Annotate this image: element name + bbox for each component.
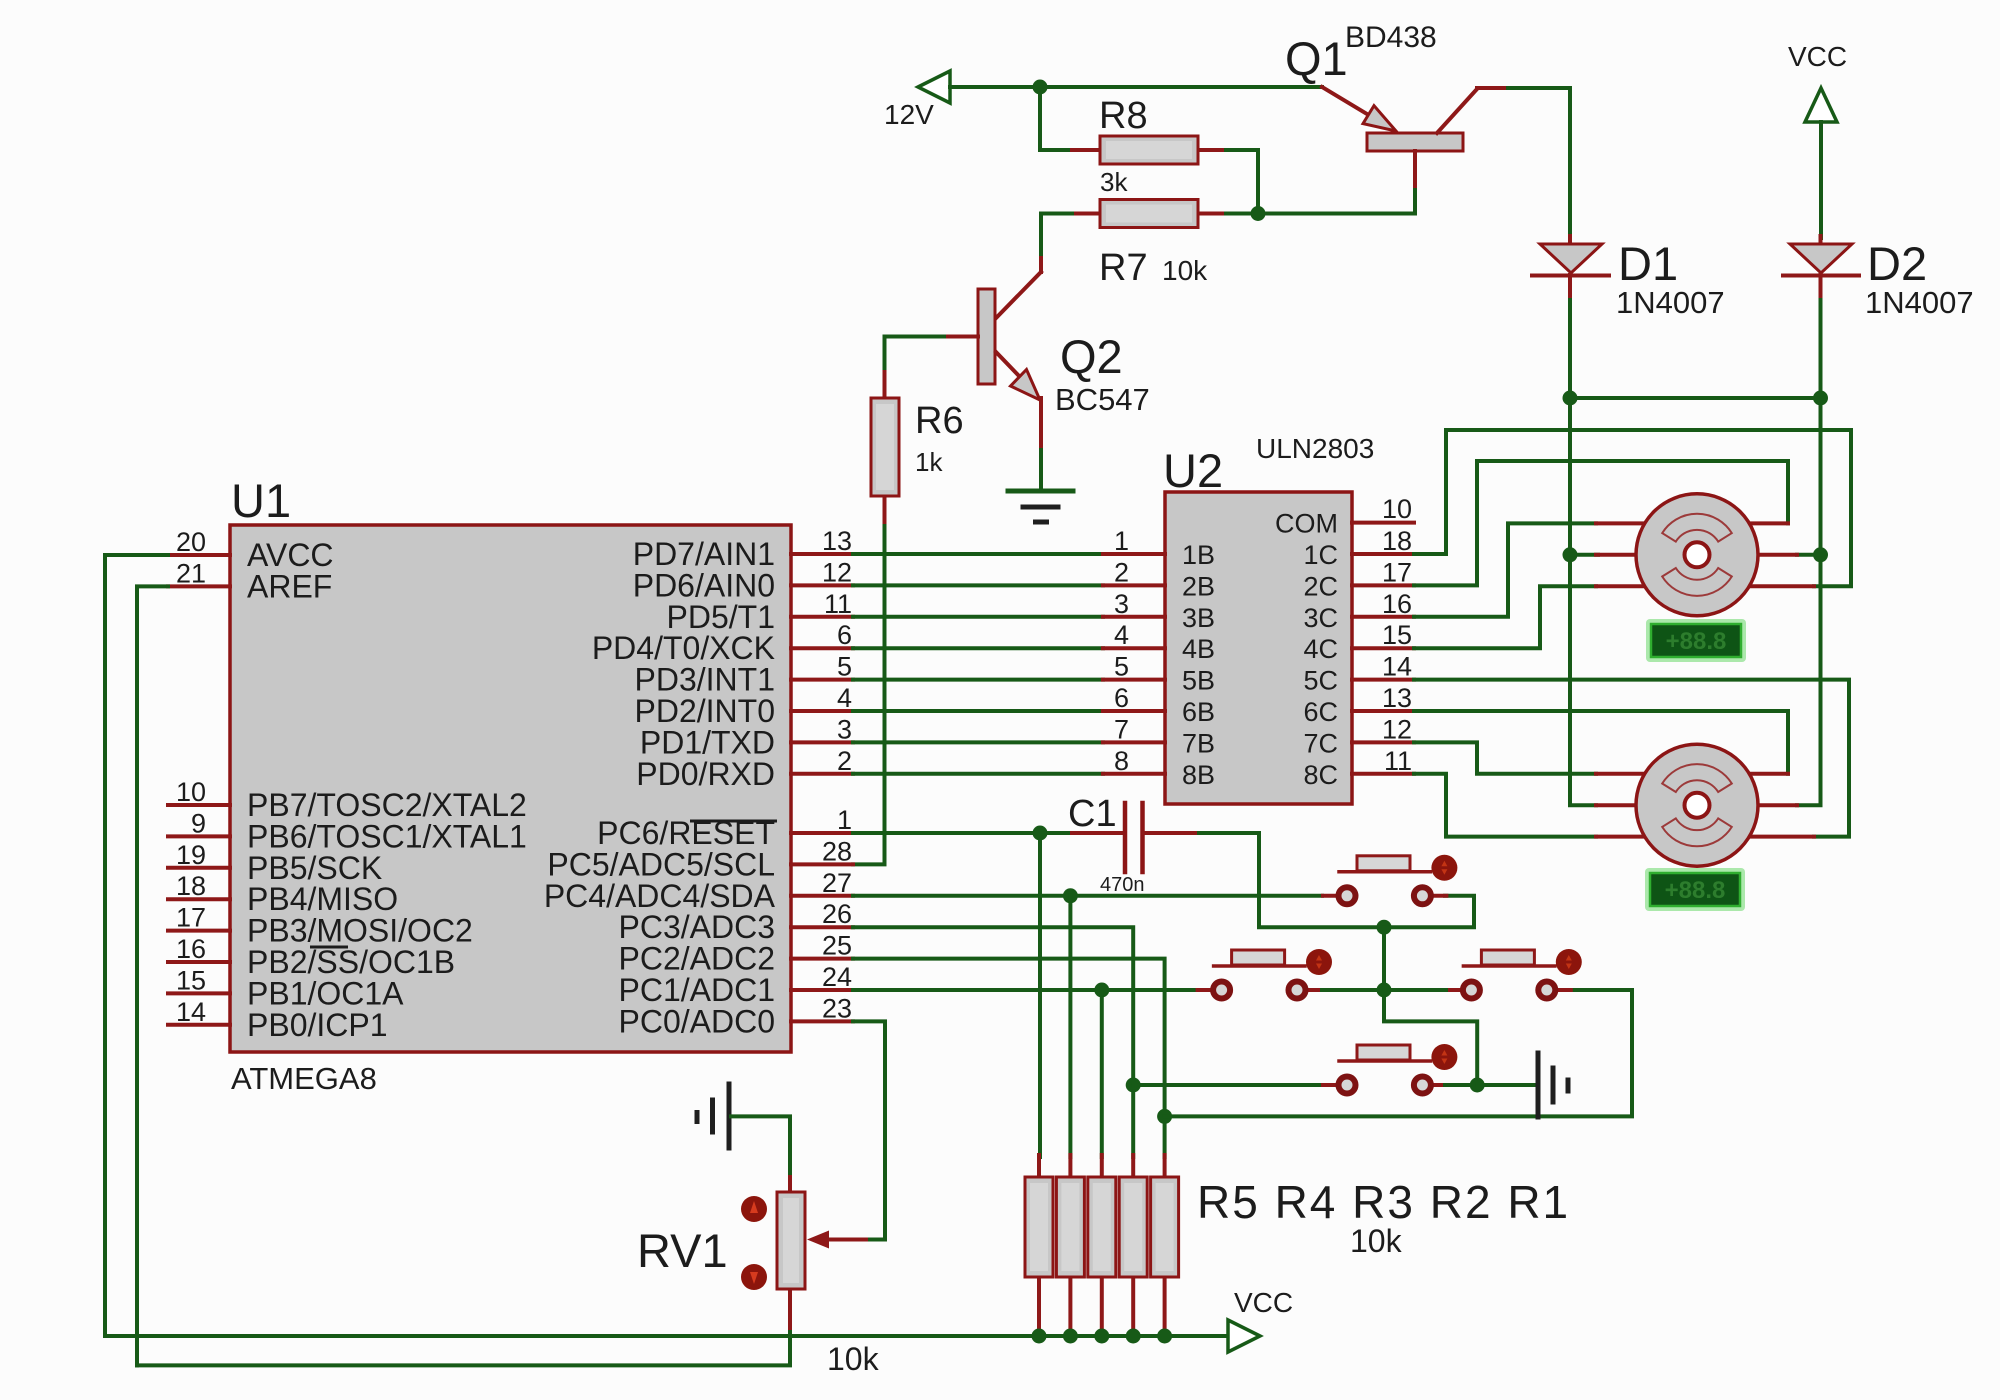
svg-text:1N4007: 1N4007 — [1616, 285, 1725, 320]
svg-text:19: 19 — [176, 840, 206, 870]
IC U2 ULN2803 — [1103, 433, 1414, 804]
wire net PD1/TXD — [853, 740, 1103, 744]
wire net PD3/INT1 — [853, 678, 1103, 682]
svg-text:12: 12 — [1382, 714, 1412, 744]
svg-text:12V: 12V — [884, 99, 934, 130]
wire — [1797, 398, 1821, 805]
junction — [1033, 826, 1048, 841]
wire — [1819, 122, 1823, 238]
pin 27 PC4/ADC4/SDA — [791, 894, 853, 898]
pin 11 8C — [1352, 772, 1414, 776]
wire net 4C — [1414, 586, 1596, 648]
pin 15 4C — [1352, 646, 1414, 650]
svg-text:U1: U1 — [231, 474, 291, 527]
svg-text:18: 18 — [176, 871, 206, 901]
wire — [853, 526, 885, 864]
pin 6 PD4/T0/XCK — [791, 646, 853, 650]
wire — [1395, 190, 1415, 214]
svg-text:4: 4 — [837, 683, 852, 713]
svg-text:4C: 4C — [1303, 634, 1338, 664]
junction — [1563, 547, 1578, 562]
pin 17 2C — [1352, 583, 1414, 587]
pin 13 PD7/AIN1 — [791, 552, 853, 556]
svg-text:8B: 8B — [1182, 760, 1215, 790]
svg-text:ULN2803: ULN2803 — [1256, 433, 1374, 464]
wire net PC2 — [853, 959, 1165, 1157]
svg-text:21: 21 — [176, 558, 206, 588]
pin 16 PB2/SS/OC1B — [168, 960, 230, 964]
svg-text:C1: C1 — [1068, 793, 1117, 835]
svg-text:11: 11 — [1384, 746, 1412, 776]
svg-text:13: 13 — [822, 526, 852, 556]
wire net PC3 to button — [1133, 1083, 1322, 1087]
svg-text:R7: R7 — [1099, 247, 1148, 289]
ground — [697, 1084, 729, 1148]
pin 4 PD2/INT0 — [791, 709, 853, 713]
junction — [1063, 1329, 1078, 1344]
button SW1 — [1323, 855, 1457, 905]
svg-text:5: 5 — [1114, 652, 1129, 682]
pin 19 PB5/SCK — [168, 866, 230, 870]
svg-text:6B: 6B — [1182, 697, 1215, 727]
svg-text:28: 28 — [822, 836, 852, 866]
wire net PD5/T1 — [853, 615, 1103, 619]
pin 28 PC5/ADC5/SCL — [791, 862, 853, 866]
pin 8 8B — [1103, 772, 1165, 776]
pin 12 PD6/AIN0 — [791, 583, 853, 587]
power VCC — [1788, 41, 1847, 122]
svg-text:8: 8 — [1114, 746, 1129, 776]
wire button row — [1322, 988, 1446, 992]
svg-text:17: 17 — [1382, 557, 1412, 587]
wire — [1382, 927, 1386, 990]
svg-text:12: 12 — [822, 557, 852, 587]
svg-text:20: 20 — [176, 527, 206, 557]
wire net PD7/AIN1 — [853, 552, 1103, 556]
wire net PC0 — [853, 1021, 885, 1239]
transistor Q1 BD438 — [1285, 21, 1508, 192]
resistor R6 — [871, 372, 964, 528]
pin 14 5C — [1352, 678, 1414, 682]
svg-text:3C: 3C — [1303, 603, 1338, 633]
svg-text:PC0/ADC0: PC0/ADC0 — [619, 1003, 776, 1039]
svg-text:14: 14 — [176, 997, 206, 1027]
svg-text:U2: U2 — [1163, 444, 1223, 497]
pin 16 3C — [1352, 615, 1414, 619]
svg-text:+88.8: +88.8 — [1666, 628, 1727, 655]
motor M2 — [1596, 744, 1814, 866]
motor M1 — [1596, 494, 1814, 616]
svg-text:3: 3 — [1114, 589, 1129, 619]
resistor R1 10k — [1151, 1155, 1179, 1332]
wire net 3C — [1414, 523, 1596, 616]
pin 20 AVCC — [168, 553, 230, 557]
pin 17 PB3/MOSI/OC2 — [168, 929, 230, 933]
svg-text:24: 24 — [822, 962, 852, 992]
pin 10 COM — [1352, 521, 1414, 525]
svg-text:R6: R6 — [915, 400, 964, 442]
svg-text:2: 2 — [837, 746, 852, 776]
pin 14 PB0/ICP1 — [168, 1023, 230, 1027]
power 12V — [884, 71, 950, 130]
junction — [1813, 547, 1828, 562]
svg-text:7B: 7B — [1182, 728, 1215, 758]
pin 10 PB7/TOSC2/XTAL2 — [168, 803, 230, 807]
wire — [950, 85, 1322, 89]
wire — [870, 1238, 885, 1242]
svg-text:470n: 470n — [1100, 874, 1145, 896]
resistor R4 10k — [1056, 1155, 1084, 1332]
svg-text:27: 27 — [822, 868, 852, 898]
wire — [1199, 833, 1474, 927]
wire — [1226, 212, 1258, 216]
wire — [1570, 398, 1596, 805]
svg-text:25: 25 — [822, 931, 852, 961]
resistor R3 10k — [1088, 1155, 1116, 1332]
pin 3 PD1/TXD — [791, 740, 853, 744]
power VCC — [1228, 1287, 1293, 1352]
pin 18 1C — [1352, 552, 1414, 556]
wire net PD2/INT0 — [853, 709, 1103, 713]
svg-text:16: 16 — [176, 934, 206, 964]
svg-text:6: 6 — [837, 620, 852, 650]
svg-text:PD0/RXD: PD0/RXD — [636, 756, 775, 792]
junction — [1126, 1329, 1141, 1344]
wire — [1508, 88, 1570, 238]
wire — [137, 1332, 790, 1365]
svg-text:1C: 1C — [1303, 540, 1338, 570]
pin 2 PD0/RXD — [791, 772, 853, 776]
wire — [885, 337, 945, 375]
wire — [1477, 1083, 1536, 1087]
svg-text:14: 14 — [1382, 652, 1412, 682]
wire — [1797, 553, 1821, 557]
svg-text:6: 6 — [1114, 683, 1129, 713]
pin 26 PC3/ADC3 — [791, 925, 853, 929]
transistor Q2 BC547 — [885, 252, 1150, 452]
svg-text:ATMEGA8: ATMEGA8 — [231, 1061, 377, 1096]
svg-text:COM: COM — [1275, 509, 1338, 539]
wire — [1258, 212, 1393, 216]
wire — [1040, 87, 1072, 150]
junction — [1563, 391, 1578, 406]
wire — [1226, 150, 1258, 214]
svg-text:15: 15 — [176, 965, 206, 995]
pin 15 PB1/OC1A — [168, 991, 230, 995]
wire net RESET drop — [1038, 833, 1042, 1157]
svg-text:BD438: BD438 — [1345, 21, 1437, 54]
svg-text:D2: D2 — [1867, 237, 1927, 290]
wire net PD0/RXD — [853, 772, 1103, 776]
pin 24 PC1/ADC1 — [791, 988, 853, 992]
wire — [1384, 990, 1477, 1085]
wire net 7C — [1414, 742, 1596, 773]
pin 5 PD3/INT1 — [791, 678, 853, 682]
display motor M2 readout — [1645, 868, 1745, 911]
svg-text:1B: 1B — [1182, 540, 1215, 570]
wire net 8C — [1414, 774, 1596, 837]
ground — [1538, 1053, 1568, 1117]
svg-text:1: 1 — [837, 805, 852, 835]
pin 1 PC6/RESET — [791, 831, 853, 835]
wire — [1039, 214, 1043, 255]
svg-text:9: 9 — [191, 808, 206, 838]
svg-text:Q1: Q1 — [1285, 32, 1348, 85]
svg-text:5: 5 — [837, 652, 852, 682]
junction — [1094, 1329, 1109, 1344]
wire net AREF rail — [137, 586, 168, 1365]
svg-text:3k: 3k — [1100, 167, 1128, 197]
svg-text:4B: 4B — [1182, 634, 1215, 664]
pin 6 6B — [1103, 709, 1165, 713]
svg-text:RV1: RV1 — [637, 1224, 728, 1277]
diode D1 1N4007 — [1532, 236, 1725, 320]
wire — [1039, 450, 1043, 491]
pin 13 6C — [1352, 709, 1414, 713]
svg-text:5B: 5B — [1182, 666, 1215, 696]
svg-text:15: 15 — [1382, 620, 1412, 650]
svg-text:PB0/ICP1: PB0/ICP1 — [247, 1007, 388, 1043]
pin 25 PC2/ADC2 — [791, 957, 853, 961]
svg-text:R5 R4 R3 R2 R1: R5 R4 R3 R2 R1 — [1197, 1176, 1570, 1228]
wire — [1041, 212, 1072, 216]
wire — [731, 1116, 790, 1179]
junction — [1126, 1078, 1141, 1093]
pin 11 PD5/T1 — [791, 615, 853, 619]
wire net 6C — [1414, 711, 1788, 774]
svg-text:11: 11 — [824, 589, 852, 619]
svg-text:4: 4 — [1114, 620, 1129, 650]
pin 23 PC0/ADC0 — [791, 1019, 853, 1023]
wire — [1568, 300, 1572, 398]
pin 12 7C — [1352, 740, 1414, 744]
wire net 2C — [1414, 461, 1788, 585]
junction — [1251, 206, 1266, 221]
resistor R2 10k — [1119, 1155, 1147, 1332]
junction — [1157, 1329, 1172, 1344]
wire net PC4 — [853, 894, 1322, 898]
wire net PC1 — [853, 988, 1196, 992]
wire net RESET — [853, 831, 1072, 835]
svg-text:2B: 2B — [1182, 571, 1215, 601]
wire net 5C — [1414, 680, 1849, 837]
wire net PC1 drop — [1100, 990, 1104, 1157]
svg-text:1N4007: 1N4007 — [1865, 285, 1974, 320]
display motor M1 readout — [1646, 619, 1746, 662]
svg-text:10k: 10k — [1162, 255, 1208, 286]
svg-text:13: 13 — [1382, 683, 1412, 713]
svg-text:3B: 3B — [1182, 603, 1215, 633]
pin 18 PB4/MISO — [168, 897, 230, 901]
wire — [1570, 553, 1598, 557]
wire net VCC rail — [105, 555, 1228, 1336]
svg-text:7: 7 — [1114, 714, 1129, 744]
pin 2 2B — [1103, 583, 1165, 587]
svg-text:D1: D1 — [1618, 237, 1678, 290]
svg-text:2C: 2C — [1303, 571, 1338, 601]
svg-text:18: 18 — [1382, 526, 1412, 556]
pin 3 3B — [1103, 615, 1165, 619]
svg-text:1: 1 — [1114, 526, 1129, 556]
junction — [1157, 1109, 1172, 1124]
junction — [1063, 888, 1078, 903]
junction — [1377, 983, 1392, 998]
pin 5 5B — [1103, 678, 1165, 682]
resistor R5 10k — [1025, 1155, 1053, 1332]
junction — [1377, 920, 1392, 935]
wire — [1445, 1083, 1477, 1087]
svg-text:BC547: BC547 — [1055, 382, 1150, 417]
svg-text:3: 3 — [837, 714, 852, 744]
ground — [1008, 491, 1073, 522]
diode D2 1N4007 — [1783, 236, 1974, 320]
svg-text:5C: 5C — [1303, 666, 1338, 696]
svg-text:10k: 10k — [1350, 1223, 1403, 1259]
svg-text:Q2: Q2 — [1060, 330, 1123, 383]
svg-text:VCC: VCC — [1788, 41, 1847, 72]
svg-text:AREF: AREF — [247, 568, 332, 604]
wire net PC4 drop — [1068, 896, 1072, 1157]
wire net PC2 rail — [1165, 990, 1632, 1116]
wire net PD6/AIN0 — [853, 583, 1103, 587]
svg-text:R8: R8 — [1099, 95, 1148, 137]
resistor R8 — [1072, 95, 1226, 197]
wire net PC3 — [853, 927, 1133, 1157]
pin 1 1B — [1103, 552, 1165, 556]
svg-text:6C: 6C — [1303, 697, 1338, 727]
svg-text:+88.8: +88.8 — [1665, 877, 1726, 904]
svg-text:23: 23 — [822, 993, 852, 1023]
svg-text:10: 10 — [176, 777, 206, 807]
svg-text:8C: 8C — [1303, 760, 1338, 790]
svg-text:1k: 1k — [915, 447, 943, 477]
pin 9 PB6/TOSC1/XTAL1 — [168, 834, 230, 838]
svg-text:17: 17 — [176, 903, 206, 933]
capacitor C1 470n — [1068, 793, 1199, 896]
pin 21 AREF — [168, 584, 230, 588]
pin 7 7B — [1103, 740, 1165, 744]
junction — [1813, 391, 1828, 406]
svg-text:2: 2 — [1114, 557, 1129, 587]
svg-text:VCC: VCC — [1234, 1287, 1293, 1318]
wire — [1570, 396, 1821, 400]
resistor R7 — [1072, 200, 1226, 290]
wire — [1819, 300, 1823, 398]
junction — [1094, 983, 1109, 998]
svg-text:7C: 7C — [1303, 728, 1338, 758]
svg-text:10: 10 — [1382, 494, 1412, 524]
junction — [1033, 80, 1048, 95]
wire net 1C — [1414, 430, 1851, 586]
button SW4 — [1323, 1044, 1457, 1094]
svg-text:10k: 10k — [827, 1341, 880, 1377]
IC U1 ATMEGA8 — [168, 474, 853, 1096]
junction — [1032, 1329, 1047, 1344]
svg-text:26: 26 — [822, 899, 852, 929]
junction — [1470, 1078, 1485, 1093]
svg-text:16: 16 — [1382, 589, 1412, 619]
pin 4 4B — [1103, 646, 1165, 650]
button SW3 — [1447, 949, 1581, 999]
button SW2 — [1198, 949, 1332, 999]
potentiometer RV1 — [637, 1177, 870, 1334]
wire net PD4/T0/XCK — [853, 646, 1103, 650]
